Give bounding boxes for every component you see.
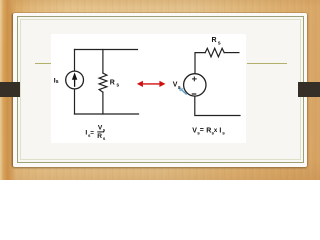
equation Is = Vs/Rs (85, 124, 106, 141)
wood table background (0, 0, 320, 180)
svg-text:Vs=RsxIs: Vs=RsxIs (192, 127, 225, 135)
svg-text:Rs: Rs (97, 133, 106, 141)
svg-text:Rs: Rs (212, 37, 221, 46)
white margin of slide (outer white band) (13, 13, 307, 168)
white slide sheet (13, 13, 307, 168)
wire: left branch upper (74, 50, 76, 72)
current source arrow (up) (72, 72, 77, 86)
wire: left branch lower (74, 89, 76, 114)
plus sign in voltage source (192, 77, 197, 82)
wire: right circuit top-right (224, 52, 239, 54)
minus sign in voltage source (192, 93, 197, 95)
olive horizontal rule right segment (247, 63, 287, 64)
wire: right circuit top-left corner (195, 53, 205, 74)
svg-text:Rs: Rs (110, 79, 120, 88)
svg-text:Vs: Vs (173, 82, 181, 91)
inner pale olive border line (20, 19, 301, 160)
red transformation double arrow (137, 81, 166, 87)
wire: left circuit bottom (75, 113, 139, 115)
resistor Rs (left circuit) (99, 73, 107, 92)
wire: resistor branch lower (102, 92, 104, 114)
right dark clip (298, 82, 320, 98)
wire: resistor branch upper (102, 50, 104, 74)
current source Is circle (66, 71, 84, 89)
white image box with circuits (51, 34, 247, 143)
svg-text:Is: Is (54, 78, 59, 85)
wire: right circuit bottom (195, 96, 240, 115)
left dark clip (0, 82, 20, 98)
voltage source Vs circle (184, 74, 206, 96)
stronger orange left wood band (0, 0, 14, 180)
wire: left circuit top (75, 49, 138, 51)
resistor Rs (right circuit) (205, 48, 224, 57)
circuit artwork overlay (0, 0, 320, 180)
outer olive border line (17, 16, 304, 163)
olive horizontal rule left segment (35, 63, 51, 64)
blue mouse cursor (178, 87, 186, 94)
svg-text:Is=: Is= (85, 129, 94, 138)
